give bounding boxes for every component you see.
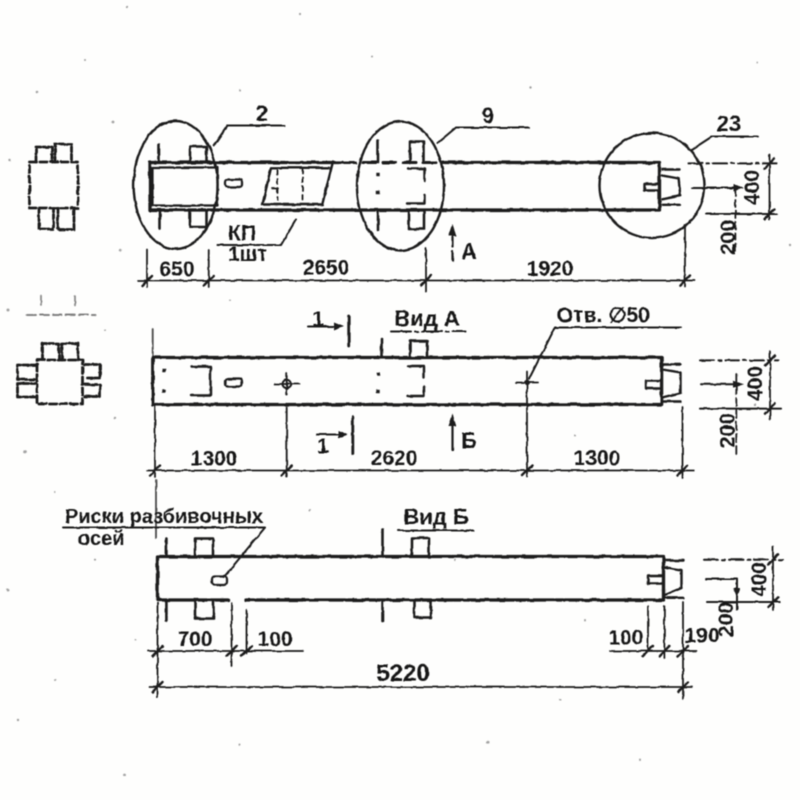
svg-text:400: 400 (741, 170, 764, 205)
mid view beam outline (153, 358, 662, 405)
top view dim slashes (142, 276, 690, 286)
top view right tenon (645, 184, 660, 191)
balloon ellipse 9 (357, 122, 444, 251)
top view 200 pointer (692, 187, 738, 189)
top view beam outline (150, 163, 660, 211)
mid view crosshair hole (283, 380, 291, 388)
mid view right dots (376, 372, 379, 375)
top view extension lines (147, 225, 685, 292)
top view right tick lines (688, 162, 781, 164)
bottom view right vertical dim (772, 547, 774, 611)
svg-text:9: 9 (482, 103, 494, 128)
top view slot mark (225, 180, 242, 188)
svg-text:23: 23 (717, 111, 741, 136)
mid view right tick lines (700, 359, 778, 361)
bottom view tick below middle (381, 600, 384, 621)
svg-text:2650: 2650 (303, 257, 350, 280)
mid view tab above (410, 341, 427, 358)
overall dimension 5220 (150, 686, 692, 688)
svg-text:1920: 1920 (527, 258, 574, 281)
svg-text:1шт: 1шт (228, 243, 267, 266)
mid view left bracket (191, 367, 211, 396)
svg-text:2620: 2620 (371, 447, 418, 470)
section sketch S1 body (top-left) (30, 162, 79, 208)
svg-text:5220: 5220 (376, 660, 429, 687)
svg-text:200: 200 (717, 413, 740, 448)
top view anchor tab above left (190, 147, 207, 163)
mid view right wedge (663, 365, 681, 402)
section sketch S1 bottom tab 1 (39, 208, 54, 229)
bottom view right tick lines (704, 559, 783, 561)
top view anchor tab above middle (410, 142, 424, 163)
top view dimension line (138, 280, 694, 282)
balloon circle 23 (600, 133, 705, 238)
plate KP dashed verticals (278, 168, 303, 203)
mid view left dots (162, 369, 165, 372)
top view left end inner rect (153, 168, 218, 206)
bottom view tick above middle (381, 530, 384, 557)
svg-text:100: 100 (608, 627, 643, 650)
svg-text:650: 650 (159, 258, 194, 281)
svg-text:700: 700 (177, 628, 212, 651)
view arrow A (451, 233, 453, 261)
svg-text:200: 200 (717, 220, 740, 255)
top view right vertical dim (769, 155, 771, 219)
svg-text:Вид Б: Вид Б (403, 505, 468, 530)
mid view right vertical dim (769, 351, 771, 419)
view arrow B (451, 423, 453, 450)
top view beam top edge dashed part (343, 161, 445, 164)
top view middle bracket (407, 169, 425, 204)
mid view slot mark (226, 379, 243, 387)
section sketch S1 top tab 1 (36, 147, 52, 162)
svg-text:100: 100 (257, 628, 292, 651)
section sketch S1 top tab 2 (55, 144, 72, 162)
section sketch S2 top tab 1 (43, 344, 60, 361)
svg-text:1300: 1300 (191, 448, 238, 471)
mid view right tenon (646, 381, 662, 389)
section sketch S2 faint section marks (41, 296, 75, 305)
bottom view beam outline (158, 557, 664, 601)
svg-text:Б: Б (461, 428, 477, 453)
mid view right bracket (408, 367, 424, 397)
mid view stray axis line (152, 329, 154, 356)
svg-text:А: А (461, 239, 477, 264)
section sketch S1 bottom tab 2 (58, 208, 74, 230)
svg-text:Вид А: Вид А (394, 306, 459, 331)
svg-text:1: 1 (312, 308, 324, 331)
bottom view dimension line 700-100 (148, 650, 696, 652)
svg-text:1: 1 (317, 435, 329, 458)
bottom view tick above left (165, 539, 168, 557)
svg-text:КП: КП (228, 222, 256, 245)
bottom view right tenon (648, 576, 664, 584)
bottom view slot mark (212, 577, 228, 585)
section sketch S2 axis dash line (27, 314, 95, 316)
bottom view tab above middle (412, 538, 429, 557)
top view anchor tick above middle (377, 141, 380, 163)
svg-text:2: 2 (256, 101, 268, 126)
bottom view tick below left (165, 600, 168, 621)
svg-text:осей: осей (78, 528, 125, 550)
top view anchor tab below middle (409, 210, 424, 229)
mid view dimension line (147, 470, 694, 472)
section sketch S2 left clip 2 (18, 384, 37, 398)
plate KP parallelogram (263, 162, 334, 205)
bottom view tab below left (196, 600, 214, 619)
svg-text:200: 200 (715, 602, 738, 637)
mid view hole Otv50 (516, 372, 538, 394)
svg-text:400: 400 (748, 562, 771, 597)
section sketch S2 body (37, 360, 83, 404)
bottom view extension lines right (648, 602, 683, 699)
section sketch S2 left clip 1 (18, 365, 37, 380)
top view anchor tick above left (158, 145, 161, 163)
bottom view extension lines left (158, 603, 247, 697)
bottom view right wedge (664, 561, 684, 598)
section sketch S2 right clip 2 (85, 385, 101, 397)
top view anchor tick below middle (377, 210, 380, 230)
top view anchor tab below left (190, 210, 207, 227)
svg-text:1300: 1300 (574, 447, 621, 470)
top view middle dots (376, 172, 379, 175)
balloon ellipse 2 (134, 121, 218, 249)
bottom view tab above left (195, 539, 213, 557)
section sketch S2 right clip 1 (85, 365, 101, 379)
svg-text:400: 400 (744, 366, 767, 401)
svg-text:Отв. ∅50: Отв. ∅50 (557, 304, 650, 327)
top view right wedge (662, 170, 680, 205)
section sketch S2 top tab 2 (62, 344, 78, 361)
bottom view 200 pointer (706, 579, 738, 610)
mid view 200 pointer (701, 383, 737, 385)
svg-text:Риски разбивочных: Риски разбивочных (65, 506, 263, 528)
top view anchor tick below left (159, 210, 162, 229)
mid view tick above (380, 339, 383, 358)
bottom view tab below middle (414, 600, 431, 618)
plate KP tick (272, 188, 278, 190)
mid view extension lines (155, 395, 683, 478)
